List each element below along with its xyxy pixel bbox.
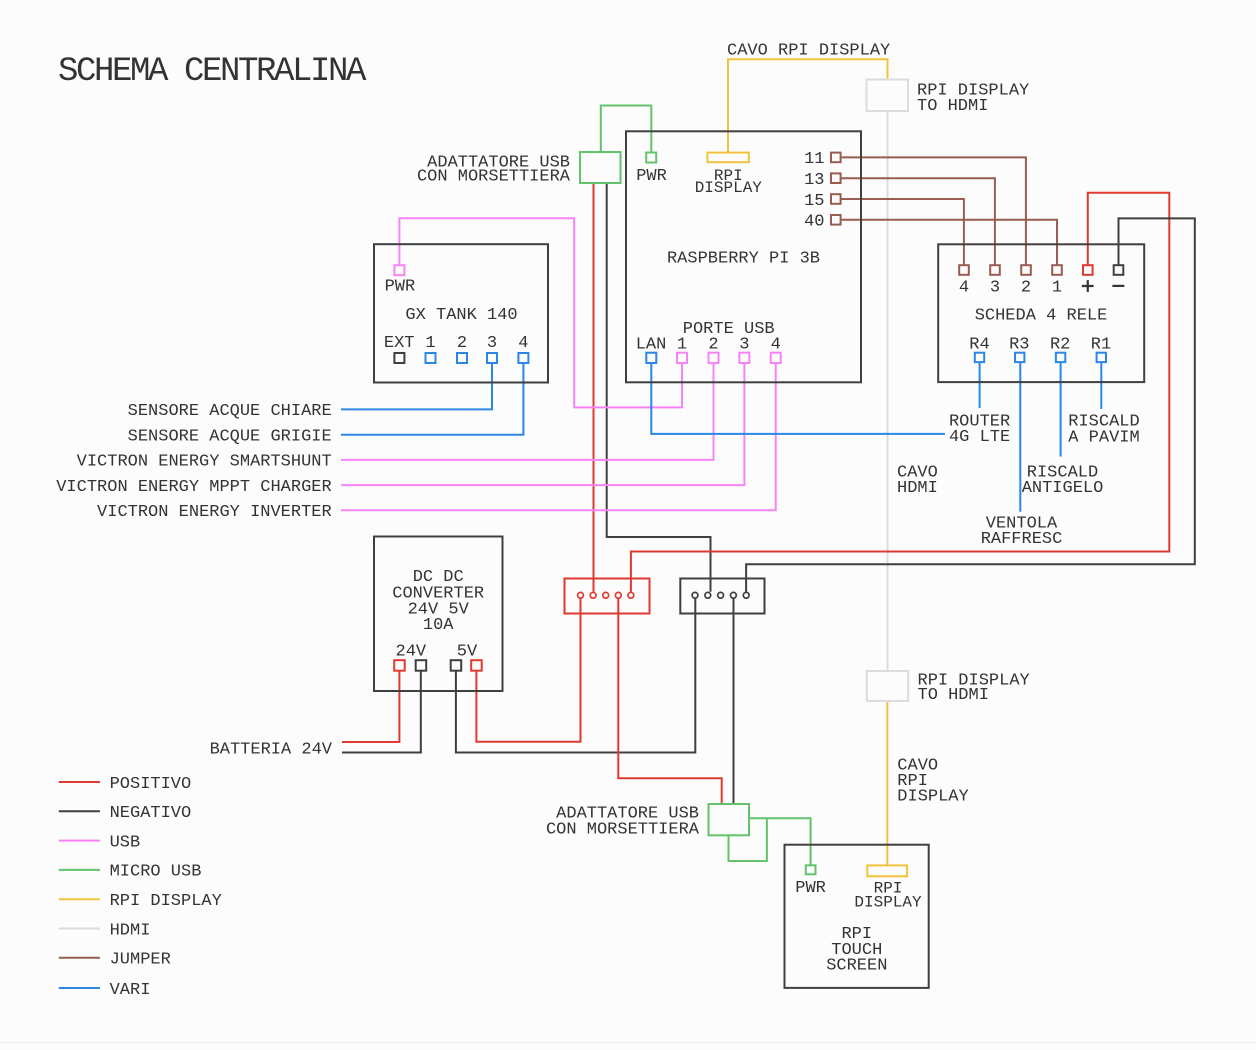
svg-text:3: 3	[739, 335, 749, 354]
svg-text:VARI: VARI	[110, 981, 151, 1000]
component: adattatore USB con morsettiera 2	[709, 804, 750, 835]
svg-text:LAN: LAN	[636, 335, 667, 354]
wire: blue from relay R4 to router label	[979, 363, 981, 409]
svg-text:TO HDMI: TO HDMI	[918, 686, 989, 705]
svg-text:R2: R2	[1050, 336, 1070, 355]
pin: red terminal block pins 1-5	[578, 592, 634, 598]
pin: relay R3	[1015, 353, 1024, 362]
pin: RPi PWR (green square)	[646, 153, 656, 163]
svg-text:13: 13	[804, 171, 824, 190]
wire: green micro-USB from adapter 1 to RPi PWR	[601, 106, 652, 153]
pin: RPi USB 4	[771, 353, 781, 363]
pin: relay -	[1114, 265, 1124, 275]
pin: relay R2	[1056, 353, 1065, 362]
component: RPI display to HDMI adapter 1	[867, 80, 909, 112]
svg-text:VICTRON ENERGY SMARTSHUNT: VICTRON ENERGY SMARTSHUNT	[77, 453, 332, 472]
legend: NEGATIVO	[59, 810, 100, 812]
pin: relay input 2	[1021, 265, 1031, 275]
pin: relay R1	[1097, 353, 1106, 362]
pin: GX Tank 1	[426, 353, 436, 363]
pin: GX Tank PWR (magenta square)	[394, 265, 404, 275]
svg-text:SCREEN: SCREEN	[826, 957, 887, 976]
wire: CAVO HDMI (gray vertical between HDMI adapters)	[887, 111, 889, 671]
svg-text:A PAVIM: A PAVIM	[1068, 429, 1139, 448]
box: Scheda 4 Rele	[938, 244, 1144, 382]
svg-text:TO HDMI: TO HDMI	[917, 97, 988, 116]
pin: DC DC 24V -	[416, 660, 427, 671]
svg-text:CAVO RPI DISPLAY: CAVO RPI DISPLAY	[727, 42, 890, 61]
faint horizontal rule near bottom edge	[0, 1042, 1256, 1043]
pin: RPi LAN	[646, 353, 656, 363]
svg-text:DISPLAY: DISPLAY	[854, 894, 922, 912]
pin: GX Tank EXT	[394, 353, 404, 363]
wire: blue from GX Tank pin 3 to sensore acque chiare	[341, 363, 492, 409]
svg-text:3: 3	[990, 279, 1000, 298]
legend: POSITIVO	[59, 781, 100, 783]
wire: jumper GPIO 40 to relay input 1	[841, 220, 1058, 265]
wire: magenta USB from RPi USB port 4 to Victron Energy inverter	[341, 363, 776, 510]
wire: green micro-USB adapter 2 bottom loop	[729, 818, 767, 861]
pin: DC DC 5V +	[471, 660, 482, 671]
wire: yellow RPI display cable top (RPi connector to HDMI adapter 1)	[728, 59, 888, 152]
component: red terminal block	[565, 579, 650, 614]
svg-text:R1: R1	[1091, 336, 1111, 355]
svg-text:PWR: PWR	[795, 879, 826, 898]
svg-text:R4: R4	[969, 336, 989, 355]
svg-text:CON MORSETTIERA: CON MORSETTIERA	[417, 168, 571, 187]
svg-text:CON MORSETTIERA: CON MORSETTIERA	[546, 820, 700, 839]
legend: JUMPER	[59, 957, 100, 959]
legend: VARI	[59, 987, 100, 989]
wire: blue from relay R1 to riscald a pavim label	[1100, 363, 1102, 410]
pin: DC DC 5V -	[451, 660, 462, 671]
box: GX Tank 140	[374, 244, 548, 382]
wire: blue from relay R2 to riscald antigelo label	[1060, 363, 1062, 457]
svg-text:VICTRON ENERGY MPPT CHARGER: VICTRON ENERGY MPPT CHARGER	[56, 478, 331, 497]
svg-text:HDMI: HDMI	[897, 479, 938, 498]
svg-text:1: 1	[1052, 279, 1062, 298]
wire: magenta USB from GX Tank PWR to RPi USB port 1	[399, 218, 682, 407]
wire: black negative from dark terminal block pin 4 to adapter 2	[733, 599, 735, 804]
component: RPi RPI DISPLAY connector (yellow)	[707, 153, 748, 163]
svg-text:4: 4	[771, 335, 781, 354]
wire: black 5V- from DC DC converter to dark terminal block pin 1	[456, 599, 695, 753]
svg-text:5V: 5V	[457, 642, 478, 661]
label: relay + symbol	[1082, 280, 1094, 292]
wire: jumper GPIO 13 to relay input 3	[841, 178, 995, 265]
wire: red positive from red terminal block pin 4 to adapter 2	[618, 599, 721, 804]
pin: RPi GPIO 15	[831, 194, 841, 204]
svg-text:1: 1	[425, 334, 435, 353]
svg-text:ANTIGELO: ANTIGELO	[1022, 479, 1104, 498]
svg-text:R3: R3	[1009, 336, 1029, 355]
wire: red positive relay board + to red terminal block pin 5	[631, 193, 1169, 592]
wire: jumper GPIO 15 to relay input 4	[841, 199, 964, 265]
svg-text:SCHEMA CENTRALINA: SCHEMA CENTRALINA	[58, 53, 367, 91]
pin: relay input 4	[959, 265, 969, 275]
pin: RPi USB 1	[677, 353, 687, 363]
label: relay - symbol	[1112, 285, 1124, 287]
svg-text:JUMPER: JUMPER	[110, 951, 171, 970]
svg-text:10A: 10A	[423, 616, 454, 635]
svg-text:DISPLAY: DISPLAY	[695, 179, 763, 197]
svg-text:24V: 24V	[396, 642, 427, 661]
box: RPI Touch Screen	[785, 845, 929, 988]
svg-text:SENSORE ACQUE GRIGIE: SENSORE ACQUE GRIGIE	[128, 428, 332, 447]
svg-text:4G LTE: 4G LTE	[949, 428, 1010, 447]
svg-text:USB: USB	[110, 833, 141, 852]
pin: GX Tank 3	[487, 353, 497, 363]
component: adattatore USB con morsettiera 1	[580, 152, 621, 183]
legend: HDMI	[59, 928, 100, 930]
pin: GX Tank 2	[457, 353, 467, 363]
pin: relay R4	[975, 353, 984, 362]
box: DC DC Converter 24V 5V 10A	[374, 537, 503, 692]
svg-text:POSITIVO: POSITIVO	[110, 775, 192, 794]
pin: DC DC 24V +	[394, 660, 405, 671]
box: Raspberry Pi 3B	[626, 131, 861, 382]
pin: RPi GPIO 13	[831, 173, 841, 183]
svg-text:11: 11	[804, 150, 824, 169]
svg-text:SCHEDA 4 RELE: SCHEDA 4 RELE	[975, 307, 1108, 326]
wire: magenta USB from RPi USB port 2 to Victron Energy Smartshunt	[341, 363, 714, 460]
svg-text:EXT: EXT	[384, 334, 415, 353]
wire: red 24V+ from DC DC converter to batteria 24V	[342, 671, 399, 742]
svg-text:VICTRON ENERGY INVERTER: VICTRON ENERGY INVERTER	[97, 503, 332, 522]
svg-text:4: 4	[959, 279, 969, 298]
svg-text:SENSORE ACQUE CHIARE: SENSORE ACQUE CHIARE	[128, 402, 332, 421]
svg-text:DISPLAY: DISPLAY	[897, 787, 968, 806]
pin: RPi GPIO 11	[831, 153, 841, 163]
svg-text:HDMI: HDMI	[110, 921, 151, 940]
svg-text:MICRO USB: MICRO USB	[110, 863, 202, 882]
pin: RPi GPIO 40	[831, 215, 841, 225]
pin: relay +	[1083, 265, 1093, 275]
wire: black negative from adapter 1 to dark terminal block pin 2	[607, 183, 711, 592]
wire: black negative relay board - to dark terminal block pin 5	[746, 218, 1195, 591]
pin: touch screen PWR (green square)	[806, 865, 816, 874]
pin: dark terminal block pins 1-5	[692, 592, 749, 598]
component: RPI display to HDMI adapter 2	[867, 671, 908, 701]
pin: relay input 3	[990, 265, 1000, 275]
svg-text:RASPBERRY PI 3B: RASPBERRY PI 3B	[667, 249, 820, 268]
svg-text:2: 2	[457, 334, 467, 353]
wire: red 5V+ from DC DC converter to red terminal block pin 1	[476, 599, 580, 742]
svg-text:4: 4	[518, 334, 528, 353]
svg-text:2: 2	[1021, 279, 1031, 298]
pin: RPi USB 2	[709, 353, 719, 363]
svg-text:3: 3	[487, 334, 497, 353]
svg-text:2: 2	[708, 335, 718, 354]
wire: magenta USB from RPi USB port 3 to Victron Energy MPPT charger	[341, 363, 744, 485]
wire: blue from GX Tank pin 4 to sensore acque grigie	[341, 363, 523, 435]
svg-text:PWR: PWR	[385, 278, 416, 297]
svg-text:PORTE USB: PORTE USB	[683, 320, 775, 339]
legend: RPI DISPLAY	[59, 898, 100, 900]
svg-text:40: 40	[804, 213, 824, 232]
pin: GX Tank 4	[518, 353, 528, 363]
wire: blue LAN from RPi to router 4G LTE	[651, 363, 945, 434]
svg-text:GX TANK 140: GX TANK 140	[405, 306, 517, 325]
svg-text:15: 15	[804, 192, 824, 211]
legend: MICRO USB	[59, 869, 100, 871]
wire: blue from relay R3 to ventola raffresc label	[1019, 363, 1021, 512]
wire: yellow RPI display cable bottom (HDMI adapter 2 to touch screen)	[886, 701, 888, 865]
wire: jumper GPIO 11 to relay input 2	[841, 157, 1026, 265]
svg-text:NEGATIVO: NEGATIVO	[110, 804, 192, 823]
wire: red positive from adapter 1 down to red terminal block pin 2	[593, 183, 595, 592]
component: dark terminal block	[680, 579, 764, 614]
legend: USB	[59, 840, 100, 842]
svg-text:1: 1	[677, 335, 687, 354]
svg-text:RAFFRESC: RAFFRESC	[981, 530, 1063, 549]
component: touch screen RPI DISPLAY connector (yellow)	[867, 865, 907, 876]
wire: black 24V- from DC DC converter to batteria 24V	[342, 671, 421, 753]
svg-text:PWR: PWR	[636, 167, 667, 186]
wire: green micro-USB adapter 2 right side to touch screen PWR	[749, 818, 811, 865]
pin: relay input 1	[1052, 265, 1062, 275]
svg-text:RPI DISPLAY: RPI DISPLAY	[110, 892, 222, 911]
pin: RPi USB 3	[739, 353, 749, 363]
svg-text:BATTERIA 24V: BATTERIA 24V	[210, 740, 333, 759]
